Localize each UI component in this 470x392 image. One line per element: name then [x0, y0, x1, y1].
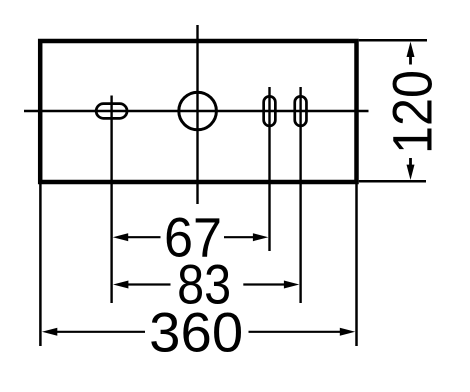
left extension line below plate: [39, 184, 42, 346]
dimension 83 left arrow and line: [113, 281, 128, 289]
fixture plate outline: [40, 41, 356, 182]
dimension 120 upper line with up arrow: [409, 55, 412, 65]
mounting obround hole (horizontal slot): [96, 104, 127, 119]
dimension 67 right arrow and line: [224, 236, 256, 238]
slot hole 2 (vertical obround): [295, 96, 307, 126]
svg-text:120: 120: [381, 70, 444, 154]
dimension 360 left arrow and line: [42, 328, 57, 336]
svg-text:360: 360: [149, 301, 243, 364]
wiring hole circle: [179, 92, 217, 130]
slot 1 vertical center / extension line: [268, 87, 270, 251]
obround vertical center / extension line: [110, 96, 112, 304]
dimension 83 right arrow and line: [243, 283, 287, 285]
top-right extension line: [359, 39, 427, 42]
horizontal center line: [24, 110, 369, 113]
slot 2 vertical center / extension line: [299, 87, 301, 303]
dimension 120 lower line with down arrow: [409, 158, 412, 166]
circle vertical center line: [196, 25, 198, 204]
dimension 67 left arrow and line: [113, 233, 128, 241]
right extension line below plate: [355, 184, 358, 346]
slot hole 1 (vertical obround): [264, 96, 276, 126]
bottom-right extension line: [359, 180, 426, 183]
dimension 360 right arrow and line: [249, 331, 343, 333]
